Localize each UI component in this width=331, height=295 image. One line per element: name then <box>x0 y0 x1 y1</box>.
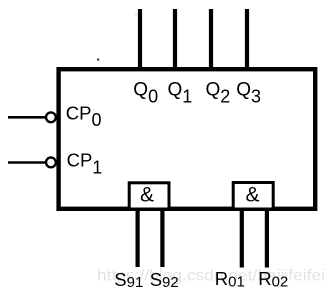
wire S91 input pin <box>136 209 140 267</box>
wire Q0 output pin <box>138 9 142 70</box>
wire CP1 input <box>8 161 45 164</box>
svg-text:&: & <box>140 183 154 206</box>
wire Q2 output pin <box>209 9 213 70</box>
wire R02 input pin <box>265 209 269 268</box>
inversion bubble CP0 <box>46 112 56 122</box>
AND gate box 2 (reset) <box>233 183 273 210</box>
speck dot <box>97 58 99 60</box>
wire S92 input pin <box>160 209 164 267</box>
wire Q1 output pin <box>173 9 177 70</box>
AND gate box 1 (set) <box>129 183 169 209</box>
wire CP0 input <box>8 116 45 119</box>
inversion bubble CP1 <box>46 158 56 168</box>
wire R01 input pin <box>240 209 244 268</box>
svg-text:&: & <box>245 183 259 206</box>
watermark fragment top <box>134 14 137 16</box>
IC body U1 <box>59 69 316 209</box>
wire Q3 output pin <box>245 9 249 70</box>
